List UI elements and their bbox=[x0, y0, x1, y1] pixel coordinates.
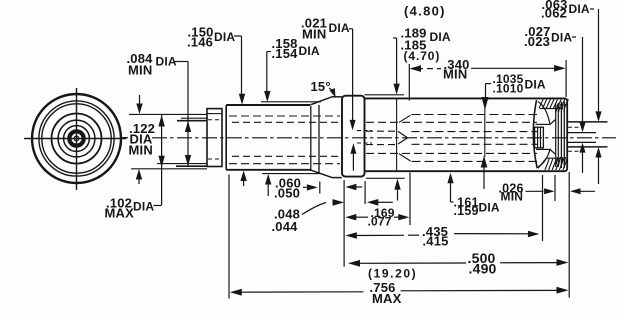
svg-text:DIA: DIA bbox=[214, 30, 235, 44]
sec2 hidden dash r1 bbox=[229, 115, 340, 117]
end view crosshair horizontal bbox=[24, 138, 127, 140]
.756 dimension line bbox=[230, 289, 242, 296]
.435 dimension line bbox=[345, 232, 357, 239]
svg-text:(19.20): (19.20) bbox=[368, 267, 417, 281]
svg-text:.062: .062 bbox=[541, 6, 567, 21]
.340 dimension line bbox=[410, 65, 422, 72]
hex socket inner vertical 1 bbox=[537, 127, 539, 148]
svg-text:.154: .154 bbox=[272, 46, 299, 61]
svg-text:DIA: DIA bbox=[133, 200, 154, 214]
cap wall hatch top bbox=[556, 104, 558, 112]
end view circle r37.6 bbox=[39, 101, 114, 176]
cap inner wall 1 bbox=[555, 103, 557, 167]
svg-text:DIA: DIA bbox=[551, 31, 572, 45]
.026 dimension line bbox=[526, 190, 544, 192]
.063 leader line bbox=[598, 9, 600, 115]
15 deg leader bbox=[329, 88, 335, 94]
lead bottom line bbox=[176, 165, 207, 167]
flange left extension line bbox=[343, 180, 345, 267]
svg-text:.490: .490 bbox=[469, 260, 497, 276]
flange right extension tick bbox=[364, 181, 366, 204]
bore dash U2 bbox=[366, 121, 537, 123]
.122 top extension line bbox=[129, 113, 207, 115]
svg-text:.023: .023 bbox=[524, 34, 550, 49]
end view circle r12.9 bbox=[64, 126, 90, 152]
.027 leader line bbox=[582, 37, 584, 126]
cap bottom band line bbox=[546, 157, 563, 159]
.048 right arrow bbox=[367, 199, 379, 206]
end view circle r18.4 bbox=[58, 120, 95, 157]
.150 leader line bbox=[241, 36, 243, 97]
svg-text:.415: .415 bbox=[423, 234, 449, 249]
bore dash L2 bbox=[366, 152, 537, 154]
.122 outside arrow bottom bbox=[138, 179, 140, 184]
taper bottom slant bbox=[311, 170, 332, 177]
.060 far arrow bbox=[345, 184, 356, 190]
centerline dash bbox=[121, 137, 129, 139]
.122 inside dimension line bbox=[161, 115, 163, 205]
svg-text:MIN: MIN bbox=[501, 190, 524, 204]
collar inner dash bottom bbox=[208, 158, 221, 160]
right body bottom line bbox=[365, 170, 565, 172]
sec2 bottom line bbox=[226, 169, 310, 171]
.1035 leader line bbox=[485, 84, 487, 97]
.060 up arrow bbox=[303, 186, 307, 188]
svg-text:DIA: DIA bbox=[569, 2, 590, 16]
socket flare top bbox=[550, 120, 556, 125]
.027 bottom arrow bbox=[582, 151, 584, 174]
.756 left extension line bbox=[228, 175, 230, 299]
.189 body crossing line bbox=[396, 98, 398, 171]
sec3 top line bbox=[332, 96, 342, 98]
taper step vertical 1 bbox=[310, 106, 312, 171]
stud bottom line bbox=[567, 146, 607, 148]
right body top line bbox=[365, 97, 565, 99]
sec2 top line bbox=[226, 104, 310, 106]
.169 dimension line bbox=[345, 214, 356, 220]
end view crosshair vertical bbox=[76, 88, 78, 190]
sec2 left edge bbox=[225, 105, 227, 170]
cap left curve bbox=[533, 100, 537, 168]
svg-text:DIA: DIA bbox=[299, 44, 320, 58]
collar outline bbox=[207, 109, 222, 167]
bore dash U3a bbox=[366, 130, 398, 132]
right end extension line bbox=[568, 172, 570, 298]
socket top edge bbox=[536, 123, 551, 125]
flange slot hidden top bbox=[357, 130, 372, 132]
.1035 bottom arrow bbox=[483, 164, 485, 190]
cap bottom slant bbox=[538, 158, 547, 169]
.060 tick bbox=[319, 182, 321, 194]
bore chamfer dash U bbox=[399, 115, 411, 122]
bore dash L1 bbox=[412, 160, 538, 162]
.021 up arrow bbox=[352, 151, 354, 171]
.189 bottom arrow bbox=[397, 187, 399, 201]
sec2 hidden dash r4 bbox=[229, 163, 340, 165]
bore dash L3a bbox=[366, 144, 398, 146]
collar inner dash top bbox=[208, 119, 221, 121]
.122 bottom extension line bbox=[131, 168, 207, 170]
stud top line bbox=[567, 121, 607, 123]
flange outline bbox=[342, 96, 365, 177]
.158 bottom extension line bbox=[262, 173, 320, 175]
svg-text:MIN: MIN bbox=[443, 67, 467, 82]
sec2 hidden dash r3 bbox=[232, 155, 340, 157]
.150 bottom arrow bbox=[243, 179, 245, 186]
flange bottom extension line bbox=[366, 177, 405, 179]
socket flare bottom bbox=[550, 149, 556, 154]
.161 leader line bbox=[450, 181, 452, 202]
svg-text:15°: 15° bbox=[311, 79, 331, 94]
pin bottom line bbox=[567, 141, 596, 143]
end view circle r34.7 bbox=[42, 104, 111, 173]
.026 tick bbox=[554, 175, 556, 201]
svg-text:MAX: MAX bbox=[105, 206, 135, 221]
svg-text:.044: .044 bbox=[272, 219, 299, 234]
hex socket inner vertical 2 bbox=[540, 127, 542, 148]
.500 dimension line bbox=[348, 260, 360, 267]
end view circle r7.2 bbox=[69, 131, 83, 145]
svg-text:DIA: DIA bbox=[329, 21, 350, 35]
.026 right arrow bbox=[570, 188, 581, 194]
.158 bottom arrow bbox=[267, 183, 269, 196]
svg-text:(4.70): (4.70) bbox=[404, 49, 441, 63]
.158 leader line bbox=[266, 52, 268, 94]
.102 top extension line bbox=[181, 117, 208, 119]
bore dash L3b bbox=[412, 143, 538, 145]
svg-text:MAX: MAX bbox=[372, 291, 402, 306]
.102 bottom extension line bbox=[157, 163, 207, 165]
centerline bbox=[152, 137, 167, 139]
svg-text:DIA: DIA bbox=[479, 201, 500, 215]
end view circle r44.5 bbox=[32, 94, 121, 183]
svg-text:(4.80): (4.80) bbox=[404, 3, 446, 18]
svg-text:.146: .146 bbox=[187, 35, 213, 50]
.340 left extension bbox=[408, 64, 410, 101]
cap top band line bbox=[540, 108, 563, 110]
cap bottom shoulder curve bbox=[538, 150, 550, 167]
taper top slant bbox=[311, 97, 332, 105]
.021 leader line bbox=[352, 29, 354, 123]
sec3 bottom line bbox=[332, 177, 342, 179]
.189 leader line bbox=[396, 38, 398, 87]
bore dash U1 bbox=[412, 114, 538, 116]
.435 right extension line bbox=[542, 175, 544, 241]
cap inner wall 2 bbox=[557, 103, 559, 167]
svg-text:.050: .050 bbox=[274, 185, 300, 200]
drill flank U bbox=[398, 131, 408, 137]
right body right edge bbox=[564, 98, 567, 171]
bore chamfer dash L bbox=[399, 154, 411, 161]
.122 outside arrow top bbox=[139, 95, 141, 104]
svg-text:MIN: MIN bbox=[128, 63, 152, 78]
end view circle r25.0 bbox=[52, 114, 102, 164]
stud hidden dash bottom bbox=[568, 150, 579, 152]
socket bottom edge bbox=[536, 148, 550, 150]
drill point extension line bbox=[409, 173, 411, 226]
svg-text:DIA: DIA bbox=[156, 55, 177, 69]
.340 right extension bbox=[565, 60, 567, 97]
.1035 body crossing line bbox=[484, 108, 486, 157]
cap wall hatch bottom bbox=[556, 157, 558, 165]
svg-text:DIA: DIA bbox=[525, 78, 546, 92]
hex socket box bbox=[535, 127, 544, 148]
svg-text:DIA: DIA bbox=[430, 30, 451, 44]
cap top hatch bbox=[539, 99, 543, 108]
sec2 hidden dash r2 bbox=[232, 121, 340, 123]
collar inner line bbox=[207, 113, 222, 115]
svg-text:.1010: .1010 bbox=[493, 82, 524, 96]
svg-text:.077: .077 bbox=[368, 215, 392, 229]
lead top line bbox=[177, 120, 207, 122]
cap bottom hatch bbox=[545, 159, 549, 170]
cap top shoulder curve bbox=[538, 102, 550, 124]
drill flank L bbox=[398, 138, 408, 144]
pin top line bbox=[567, 132, 596, 134]
flange slot hidden bottom bbox=[357, 142, 372, 144]
stud hidden dash top bbox=[568, 126, 579, 128]
.158 top extension line bbox=[261, 101, 321, 103]
.048 leader bbox=[302, 203, 326, 215]
.084 leader line bbox=[187, 62, 189, 167]
svg-text:MIN: MIN bbox=[302, 27, 326, 42]
.063 bottom arrow bbox=[598, 155, 600, 185]
svg-text:.159: .159 bbox=[454, 204, 479, 218]
cap inner wall 3 bbox=[560, 102, 562, 169]
bore dash U3b bbox=[412, 131, 538, 133]
taper step vertical 2 bbox=[318, 105, 320, 173]
svg-text:MIN: MIN bbox=[129, 143, 153, 158]
flange top extension line bbox=[365, 94, 405, 96]
end view circle r2.4 bbox=[74, 136, 79, 141]
cap inner wall 4 bbox=[563, 102, 565, 169]
